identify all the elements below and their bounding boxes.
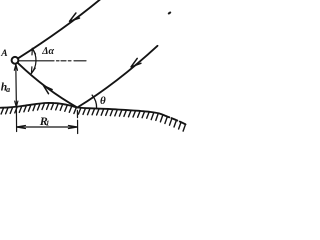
wire dash-dot horizontal reference from A [19,60,86,62]
svg-text:Δα: Δα [41,46,54,57]
witness line below A (extension of h_a line) [15,108,17,132]
svg-text:a: a [6,85,10,94]
wire incident ray to reflection point [77,46,157,108]
wire direct ray to A [18,0,100,58]
arrowhead on reflected ray [44,86,53,94]
arrowhead on direct ray [70,13,80,21]
arrowhead bottom of Δα arc [31,67,35,74]
witness line below reflection point (dashed) [76,110,78,133]
dimension line R1 [17,126,78,128]
svg-text:1: 1 [46,119,50,127]
arrowhead up h_a [14,65,17,71]
speck artifact top right [167,11,171,15]
angle arc θ at reflection point [92,95,97,108]
dimension h_a vertical line [15,64,18,107]
angle arc Δα at A [31,48,36,73]
arrowhead left of R1 [17,125,26,128]
node A circle [12,57,19,64]
arrowhead right of R1 [68,125,77,128]
arrowhead on incident ray [131,58,141,67]
svg-text:θ: θ [100,95,106,107]
arrowhead top of Δα arc [32,48,36,55]
ground hatching ticks [1,104,185,132]
wire reflected ray A to reflection point [18,63,77,107]
ground surface curve [0,103,186,124]
svg-text:A: A [0,49,7,59]
arrowhead down h_a [15,101,18,107]
